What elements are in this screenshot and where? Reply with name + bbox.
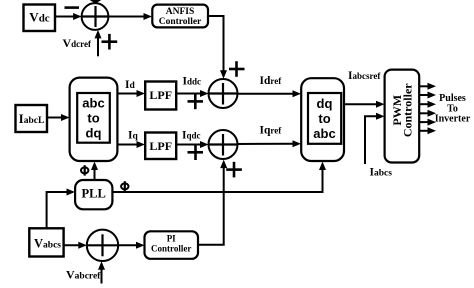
wire S1 to ANFIS controller [108, 13, 152, 20]
svg-text:IabcL: IabcL [19, 111, 45, 126]
svg-text:LPF: LPF [149, 139, 172, 153]
wire PWM output pulse arrow 4 [420, 110, 437, 117]
svg-text:LPF: LPF [149, 88, 172, 102]
label phi at PLL output [121, 181, 128, 191]
svg-text:Vdc: Vdc [29, 10, 50, 25]
wire S3 to dq-abc block (Iqref) [238, 140, 302, 147]
plus sign LPF1 input of S2 [188, 95, 204, 110]
svg-text:Iddc: Iddc [183, 75, 202, 87]
svg-text:abc: abc [313, 126, 335, 141]
wire LPF2 to summing junction S3 [176, 141, 208, 148]
svg-text:dq: dq [86, 126, 102, 141]
wire Iabcs up then right into PWM controller [365, 113, 385, 164]
svg-text:Iabcs: Iabcs [370, 167, 393, 179]
block LPF1 [145, 82, 176, 110]
svg-text:PI: PI [167, 233, 176, 243]
wire PLL right then up to dq-abc block (phi) [112, 162, 326, 193]
block Vabcs [29, 228, 63, 256]
block dq to abc U3 [301, 78, 344, 161]
block PWM Controller U6 [385, 70, 420, 163]
wire Iq output to LPF2 [118, 141, 146, 148]
summing junction S3 [209, 130, 238, 159]
block LPF2 [145, 133, 176, 160]
wire PWM output pulse arrow 5 [420, 119, 437, 126]
wire PWM output pulse arrow 6 [420, 127, 437, 134]
svg-text:Vabcs: Vabcs [34, 236, 61, 250]
svg-text:To: To [447, 103, 458, 114]
svg-text:abc: abc [82, 96, 104, 111]
wire S2 to dq-abc block (Idref) [238, 90, 302, 97]
block ANFIS Controller U1 [152, 5, 208, 28]
svg-text:Idref: Idref [260, 75, 283, 87]
wire ANFIS controller down to summing junction S2 [208, 16, 227, 79]
block PLL U4 [75, 180, 112, 209]
block Vdc [24, 5, 56, 32]
svg-text:to: to [318, 111, 330, 126]
svg-text:Iqdc: Iqdc [182, 129, 201, 141]
wire Id output to LPF1 [118, 90, 146, 97]
wire PWM output pulse arrow 3 [420, 101, 437, 108]
wire dq-abc block to PWM controller (Iabcsref) [344, 101, 385, 108]
wire PLL up to abc-dq block (phi) [91, 162, 98, 181]
svg-text:Iq: Iq [128, 129, 138, 141]
wire LPF1 to summing junction S2 [176, 90, 208, 97]
wire Vabcs up to PLL [47, 189, 75, 229]
summing junction S1 [82, 3, 109, 30]
block PI Controller U5 [145, 231, 199, 258]
block abc to dq U2 [70, 78, 118, 161]
wire Vdcref arrow into S1 [95, 30, 102, 56]
svg-text:PLL: PLL [82, 186, 106, 200]
minus sign on Vdc input [65, 6, 80, 9]
svg-text:ANFIS: ANFIS [166, 7, 195, 17]
svg-text:Inverter: Inverter [435, 114, 471, 125]
plus sign ANFIS input of S2 [229, 61, 245, 77]
plus sign for Vdcref input [102, 34, 118, 50]
block IabcL [16, 105, 48, 132]
svg-text:Iqref: Iqref [260, 125, 283, 137]
plus sign LPF2 input of S3 [188, 146, 204, 161]
summing junction S2 [209, 79, 238, 108]
wire Vdc to summing junction S1 [55, 13, 81, 20]
wire S4 to PI controller [118, 242, 144, 249]
wire PI controller right then up into S3 [198, 160, 227, 245]
svg-text:Controller: Controller [151, 244, 191, 254]
svg-text:Controller: Controller [400, 83, 414, 137]
svg-text:Controller: Controller [159, 17, 202, 27]
svg-text:Id: Id [125, 79, 135, 91]
label phi at abc-dq input [81, 165, 88, 175]
arrowhead entering S1 from top edge [88, 0, 103, 4]
wire Vabcref arrow into S4 [98, 261, 105, 283]
wire PWM output pulse arrow 1 [420, 83, 437, 90]
svg-text:dq: dq [317, 96, 333, 111]
plus sign PI input of S3 [226, 162, 242, 178]
svg-text:Vabcref: Vabcref [66, 268, 101, 282]
wire IabcL to abc-dq block [47, 114, 70, 121]
wire Vabcs to summing junction S4 [64, 242, 87, 249]
summing junction S4 [87, 230, 118, 261]
wire PWM output pulse arrow 2 [420, 92, 437, 99]
label Pulses To Inverter [435, 93, 471, 125]
svg-text:to: to [87, 111, 99, 126]
svg-text:Iabcsref: Iabcsref [348, 70, 381, 82]
svg-text:Vdcref: Vdcref [63, 36, 92, 50]
